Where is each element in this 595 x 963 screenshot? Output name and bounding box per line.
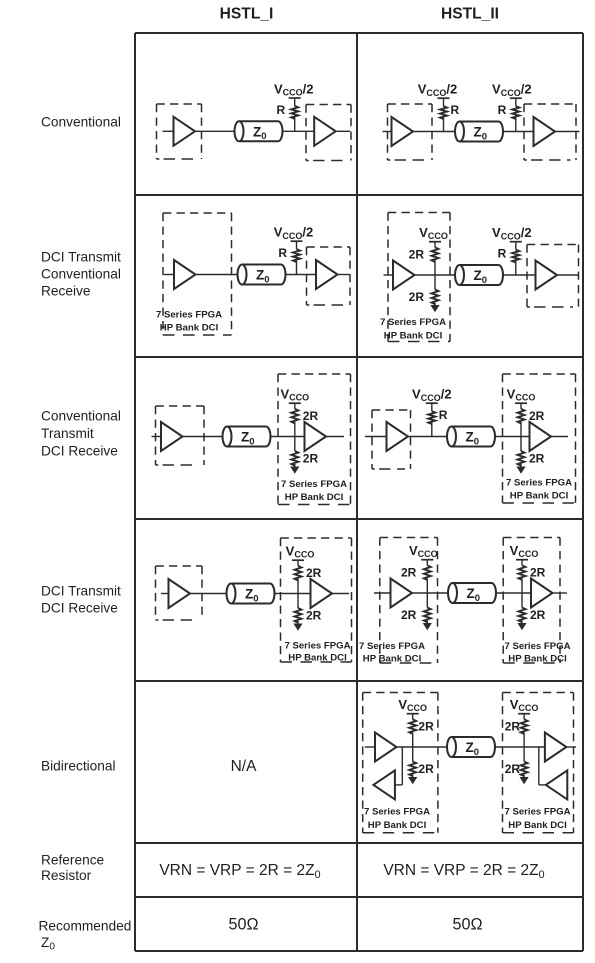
svg-text:2R: 2R (303, 452, 319, 466)
svg-text:2R: 2R (306, 566, 322, 580)
svg-text:DCI Transmit: DCI Transmit (41, 250, 121, 265)
svg-text:50Ω: 50Ω (452, 916, 482, 934)
svg-text:2R: 2R (409, 290, 425, 304)
svg-text:Conventional: Conventional (41, 115, 121, 130)
svg-text:HSTL_II: HSTL_II (441, 6, 499, 23)
svg-text:7 Series FPGA: 7 Series FPGA (281, 479, 347, 490)
svg-text:2R: 2R (303, 409, 319, 423)
svg-text:R: R (498, 103, 507, 117)
svg-text:7 Series FPGA: 7 Series FPGA (364, 807, 430, 818)
svg-text:HP Bank DCI: HP Bank DCI (285, 492, 344, 503)
svg-text:Transmit: Transmit (41, 426, 94, 441)
svg-text:2R: 2R (505, 719, 521, 733)
svg-text:N/A: N/A (231, 758, 258, 775)
svg-text:DCI Transmit: DCI Transmit (41, 584, 121, 599)
svg-text:HP Bank DCI: HP Bank DCI (384, 331, 443, 342)
svg-text:HP Bank DCI: HP Bank DCI (363, 654, 422, 665)
svg-text:7 Series FPGA: 7 Series FPGA (284, 641, 350, 652)
svg-text:Receive: Receive (41, 284, 90, 299)
svg-text:Conventional: Conventional (41, 267, 121, 282)
svg-text:Recommended: Recommended (39, 919, 132, 934)
svg-text:Resistor: Resistor (41, 868, 92, 883)
svg-text:VRN = VRP = 2R = 2Z0: VRN = VRP = 2R = 2Z0 (159, 862, 320, 881)
svg-text:R: R (278, 246, 287, 260)
svg-text:HP Bank DCI: HP Bank DCI (508, 820, 567, 831)
svg-text:2R: 2R (529, 452, 545, 466)
svg-text:HP Bank DCI: HP Bank DCI (160, 323, 219, 334)
svg-text:7 Series FPGA: 7 Series FPGA (380, 317, 446, 328)
svg-text:2R: 2R (418, 762, 434, 776)
svg-text:50Ω: 50Ω (228, 916, 258, 934)
svg-text:Conventional: Conventional (41, 409, 121, 424)
svg-text:2R: 2R (401, 565, 417, 579)
svg-text:2R: 2R (505, 762, 521, 776)
svg-text:VRN = VRP = 2R = 2Z0: VRN = VRP = 2R = 2Z0 (383, 862, 544, 881)
svg-text:7 Series FPGA: 7 Series FPGA (359, 641, 425, 652)
svg-text:2R: 2R (530, 565, 546, 579)
svg-text:7 Series FPGA: 7 Series FPGA (504, 641, 570, 652)
svg-text:7 Series FPGA: 7 Series FPGA (156, 310, 222, 321)
svg-text:7 Series FPGA: 7 Series FPGA (504, 807, 570, 818)
svg-text:2R: 2R (401, 608, 417, 622)
svg-text:HP Bank DCI: HP Bank DCI (288, 653, 347, 664)
svg-text:HSTL_I: HSTL_I (220, 6, 274, 23)
svg-text:Bidirectional: Bidirectional (41, 759, 116, 774)
svg-text:2R: 2R (529, 409, 545, 423)
svg-text:2R: 2R (306, 609, 322, 623)
svg-text:DCI Receive: DCI Receive (41, 444, 118, 459)
svg-text:7 Series FPGA: 7 Series FPGA (506, 478, 572, 489)
svg-text:2R: 2R (530, 608, 546, 622)
svg-text:Reference: Reference (41, 853, 104, 868)
svg-text:2R: 2R (418, 719, 434, 733)
svg-text:DCI Receive: DCI Receive (41, 601, 118, 616)
svg-text:HP Bank DCI: HP Bank DCI (510, 491, 569, 502)
svg-text:HP Bank DCI: HP Bank DCI (368, 820, 427, 831)
svg-text:R: R (498, 247, 507, 261)
svg-text:R: R (439, 408, 448, 422)
svg-text:R: R (277, 103, 286, 117)
svg-text:2R: 2R (409, 247, 425, 261)
svg-text:R: R (451, 103, 460, 117)
svg-text:HP Bank DCI: HP Bank DCI (508, 654, 567, 665)
